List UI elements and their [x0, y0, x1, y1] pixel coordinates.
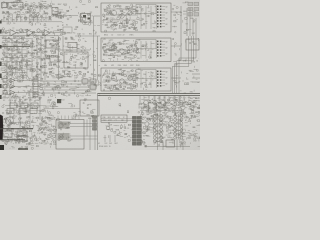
wire	[75, 16, 100, 80]
wire	[105, 135, 115, 142]
side label col	[139, 104, 146, 110]
wire	[89, 118, 91, 150]
label band rows	[2, 98, 43, 103]
wire	[0, 46, 30, 48]
ladder row lines	[2, 39, 33, 73]
schematic fine texture	[0, 0, 204, 150]
IC U14	[90, 85, 96, 89]
wire	[87, 118, 95, 150]
wire	[0, 139, 25, 141]
terminal column A	[132, 116, 136, 145]
chain boxes row2	[7, 109, 37, 114]
resistor network RN2	[33, 77, 38, 97]
terminal column B	[137, 116, 141, 145]
strip gap label 2	[104, 65, 140, 67]
wire	[0, 21, 62, 23]
bus stub	[192, 74, 200, 82]
bus staircase	[172, 36, 196, 93]
right label	[190, 98, 197, 100]
wire	[70, 124, 98, 140]
bus wires	[40, 81, 96, 93]
IC U7b	[68, 43, 77, 48]
ladder vertical bus	[7, 39, 32, 77]
chain row line	[5, 106, 80, 111]
IC U12	[82, 79, 88, 83]
strip gap label	[104, 35, 135, 37]
transistor Q12	[160, 100, 168, 104]
transistor Q10	[143, 100, 151, 104]
channel strip 3 (Q5 Q6, pin ladder)	[101, 68, 171, 91]
transformer T1	[153, 114, 162, 143]
transistor Q13	[169, 100, 177, 104]
IC U18 box	[56, 120, 84, 150]
transistor Q8	[37, 29, 40, 32]
scan artifact blob	[0, 115, 3, 141]
IC U6	[46, 40, 57, 48]
wire	[0, 35, 58, 37]
bus wire	[180, 6, 182, 60]
wire	[97, 93, 99, 150]
op-amp U3	[2, 30, 27, 37]
cluster right of strip3	[173, 75, 181, 85]
small box	[148, 103, 156, 112]
transistor Q15	[187, 100, 195, 104]
wire	[145, 146, 190, 148]
corner box	[1, 3, 8, 8]
junction box below	[166, 140, 175, 147]
capacitor C4	[71, 37, 74, 40]
transistor Q17	[168, 118, 172, 126]
wire	[101, 119, 132, 121]
scan artifact corner	[0, 145, 4, 150]
wire	[140, 95, 180, 116]
motor M1	[6, 117, 14, 125]
IC U13	[90, 79, 96, 83]
transformer T2	[174, 114, 183, 139]
left edge dark marks	[0, 21, 2, 100]
wire	[23, 6, 78, 16]
transistor row 2	[146, 105, 194, 109]
comparator U9	[3, 78, 40, 82]
label band	[1, 13, 52, 22]
op-amp U4	[27, 30, 44, 37]
U18 subcircuit 2	[58, 133, 74, 142]
resistor hang ticks	[4, 15, 46, 22]
junction box	[186, 39, 199, 50]
op-amp U4b	[44, 30, 63, 37]
wire	[10, 96, 40, 131]
terminal block TB1	[188, 2, 199, 16]
wire	[37, 36, 45, 80]
IC U5	[63, 27, 72, 33]
comparator U11	[3, 90, 40, 94]
capacitor C3	[65, 37, 68, 40]
text above line	[77, 34, 96, 36]
pin ticks U18 top	[58, 116, 79, 120]
IC U8	[64, 52, 90, 68]
transistor Q14	[178, 100, 186, 104]
wire	[171, 12, 181, 78]
IC U7	[50, 56, 58, 62]
subcircuit below U20	[106, 123, 122, 133]
section divider	[98, 93, 201, 95]
dark component	[57, 99, 61, 103]
IC U15	[80, 100, 99, 116]
transistor Q16	[145, 118, 149, 132]
IC U1	[8, 3, 23, 10]
chain boxes row1	[10, 103, 38, 108]
U18 subcircuit 1	[58, 121, 71, 130]
scan mark bottom	[18, 148, 28, 149]
transistor Q11	[152, 100, 160, 104]
channel strip 1 (Q1 Q2, pin ladder)	[101, 3, 171, 32]
channel strip 2 (Q3 Q4, pin ladder)	[101, 38, 171, 62]
IC U17	[17, 131, 27, 141]
wire stubs	[148, 119, 153, 131]
wire	[140, 110, 182, 112]
IC U2	[52, 4, 72, 20]
mixer knot cluster	[78, 12, 93, 23]
wire	[57, 36, 98, 80]
bus wire	[187, 8, 196, 36]
wire	[158, 139, 184, 150]
transistor Q7	[19, 29, 22, 32]
terminal strip	[93, 116, 97, 130]
comparator U10	[3, 84, 40, 88]
IC U16	[3, 131, 12, 137]
cluster right of strip1	[173, 5, 182, 22]
wire	[0, 128, 33, 130]
wire risers	[144, 96, 189, 101]
label row	[98, 143, 118, 148]
wire	[63, 36, 77, 52]
IC U20 box	[101, 115, 127, 122]
